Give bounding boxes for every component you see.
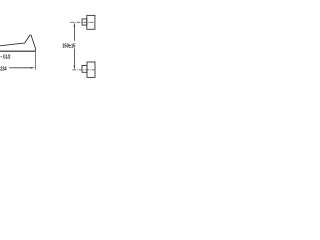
svg-text:– G1/2: – G1/2 [0, 54, 11, 60]
svg-text:234: 234 [0, 66, 7, 72]
svg-text:150±15: 150±15 [62, 43, 76, 49]
